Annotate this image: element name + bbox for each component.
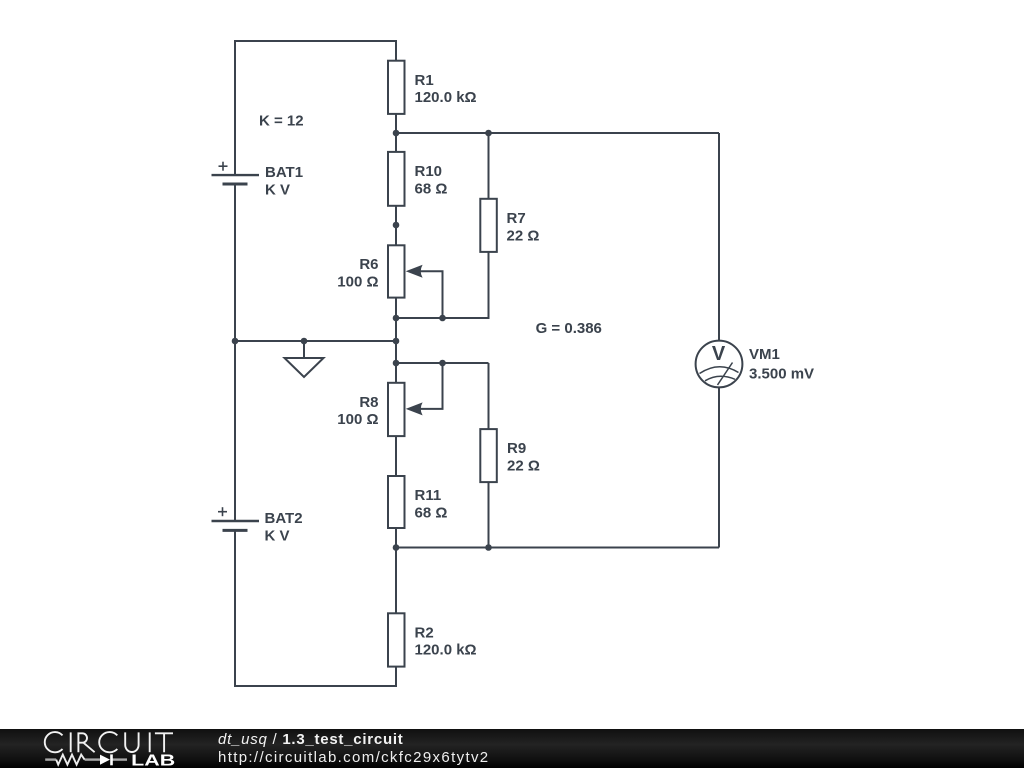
svg-text:R1: R1 <box>415 72 434 89</box>
wiper arrow R6 <box>406 265 443 318</box>
junction node ground row right <box>393 338 400 345</box>
wire ground row horizontal <box>235 340 396 342</box>
junction node row C wiper <box>439 360 446 367</box>
svg-text:VM1: VM1 <box>749 346 780 363</box>
footer text <box>218 731 404 748</box>
footer bar <box>0 729 1024 768</box>
wire R1 top stub <box>395 41 397 61</box>
svg-text:BAT1: BAT1 <box>265 164 303 181</box>
wire R9 bottom <box>488 482 490 547</box>
svg-text:R8: R8 <box>359 394 378 411</box>
wire R10 top stub <box>395 133 397 152</box>
wire R1 bottom stub <box>395 114 397 133</box>
svg-text:V: V <box>712 343 726 365</box>
wire R10 to R6 <box>395 206 397 246</box>
svg-text:120.0 kΩ: 120.0 kΩ <box>415 642 477 659</box>
resistor R9 <box>480 429 497 482</box>
wire R7 top <box>488 133 490 199</box>
junction node row C left <box>393 360 400 367</box>
resistor R2 <box>388 613 405 666</box>
wire mid vertical through ground row <box>395 318 397 363</box>
junction node row B wiper <box>439 315 446 322</box>
svg-text:68 Ω: 68 Ω <box>415 504 448 521</box>
wire left rail mid <box>234 184 236 341</box>
svg-text:68 Ω: 68 Ω <box>415 180 448 197</box>
svg-text:22 Ω: 22 Ω <box>507 458 540 475</box>
wire R8 to R11 <box>395 436 397 476</box>
wire R2 top <box>395 548 397 614</box>
resistor R11 <box>388 476 405 528</box>
svg-text:22 Ω: 22 Ω <box>507 227 540 244</box>
wire R11 bottom stub <box>395 528 397 548</box>
svg-text:R10: R10 <box>415 163 443 180</box>
junction node ground row center <box>301 338 308 345</box>
junction node R10-R6 <box>393 222 400 229</box>
junction node bottom row R9 <box>485 544 492 551</box>
wire left rail lower <box>234 341 236 521</box>
svg-text:K V: K V <box>265 182 290 199</box>
svg-text:R6: R6 <box>359 256 378 273</box>
svg-text:100 Ω: 100 Ω <box>337 273 378 290</box>
junction node bottom row left <box>393 544 400 551</box>
wire row B horizontal <box>396 317 489 319</box>
wire top horizontal <box>234 40 397 42</box>
junction node under R1 <box>393 130 400 137</box>
wire R2 bottom stub <box>395 667 397 686</box>
svg-text:BAT2: BAT2 <box>265 510 303 527</box>
svg-text:100 Ω: 100 Ω <box>337 411 378 428</box>
svg-text:G = 0.386: G = 0.386 <box>536 320 602 337</box>
junction node row B left <box>393 315 400 322</box>
wire R6 bottom stub <box>395 298 397 318</box>
wiper arrow R8 <box>406 363 443 415</box>
potentiometer R8 <box>388 383 405 436</box>
battery BAT1 <box>212 162 260 184</box>
svg-text:120.0 kΩ: 120.0 kΩ <box>415 89 477 106</box>
wire right rail lower <box>718 387 720 547</box>
wire left rail upper <box>234 40 236 175</box>
wire bottom horizontal <box>234 685 397 687</box>
wire row C horizontal <box>396 362 489 364</box>
svg-text:R11: R11 <box>415 487 442 504</box>
resistor R1 <box>388 61 405 114</box>
wire right rail upper <box>718 133 720 341</box>
svg-text:R9: R9 <box>507 440 526 457</box>
svg-text:K V: K V <box>265 528 290 545</box>
resistor R7 <box>480 199 497 252</box>
voltmeter VM1 <box>696 341 743 388</box>
resistor R10 <box>388 152 405 206</box>
battery BAT2 <box>212 507 260 530</box>
potentiometer R6 <box>388 245 405 297</box>
wire R7 bottom <box>396 252 489 318</box>
svg-text:3.500 mV: 3.500 mV <box>749 366 814 383</box>
junction node top row R7 <box>485 130 492 137</box>
svg-text:R7: R7 <box>507 210 526 227</box>
wire node row top horizontal <box>396 132 719 134</box>
junction node ground row left <box>232 338 239 345</box>
wire R9 top <box>488 363 490 429</box>
wire bottom node row horizontal <box>396 547 719 549</box>
svg-text:K = 12: K = 12 <box>259 113 304 130</box>
wire left rail bottom <box>234 530 236 687</box>
svg-text:R2: R2 <box>415 624 434 641</box>
ground <box>285 341 324 377</box>
wire R8 top stub <box>395 363 397 383</box>
